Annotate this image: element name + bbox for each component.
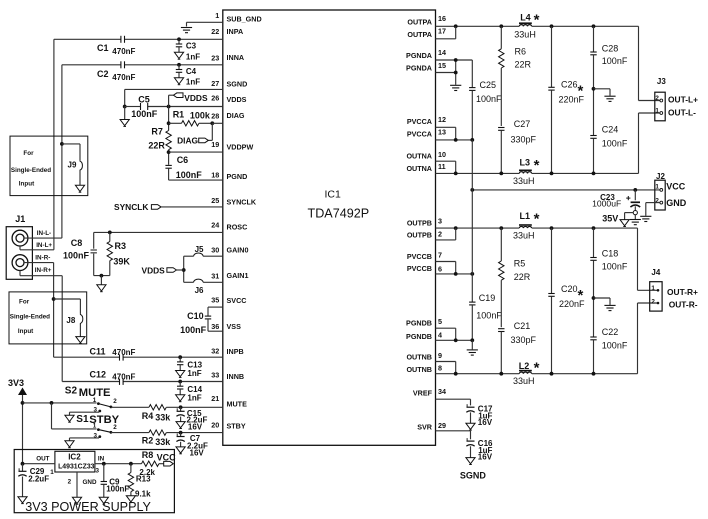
svg-text:3V3 POWER SUPPLY: 3V3 POWER SUPPLY [25, 500, 151, 514]
svg-text:24: 24 [211, 221, 219, 230]
wire INNA C2 row [62, 63, 223, 67]
capacitor C12 [90, 369, 136, 385]
svg-text:J1: J1 [15, 214, 25, 224]
ground C28 tap [594, 89, 616, 102]
pin 13 PVCCA label [407, 128, 446, 139]
svg-text:13: 13 [438, 128, 446, 137]
pin 16 OUTPA label [407, 14, 446, 27]
svg-text:C10: C10 [187, 311, 204, 321]
net label VDDS [169, 93, 208, 107]
svg-text:2: 2 [655, 198, 659, 205]
wire IN-L+ shield [20, 242, 54, 250]
svg-text:OUT-R+: OUT-R+ [667, 287, 698, 297]
capacitor C19 100nF [469, 140, 502, 340]
svg-text:L1: L1 [520, 211, 531, 221]
connector J1 [6, 214, 32, 279]
wire SVCC pin35 [208, 306, 223, 308]
svg-text:2.2k: 2.2k [139, 468, 155, 477]
svg-text:100k: 100k [190, 110, 211, 120]
inductor L2 33uH [513, 359, 540, 386]
svg-text:IN-R-: IN-R- [35, 255, 50, 262]
wire IN-L- center [24, 230, 62, 238]
svg-text:C1: C1 [97, 43, 109, 53]
svg-text:S1: S1 [76, 414, 89, 425]
net label VCC psu [157, 453, 177, 467]
svg-text:16V: 16V [188, 422, 203, 431]
pin 27 SGND label [211, 79, 247, 89]
svg-text:C20: C20 [561, 284, 578, 294]
node OUT-L+ [668, 95, 698, 105]
resistor R3 39K [107, 232, 130, 275]
svg-text:PVCCA: PVCCA [407, 117, 432, 126]
svg-text:C12: C12 [90, 369, 107, 379]
ground IC2 [72, 472, 81, 504]
wire J3 pin2 link [639, 26, 660, 100]
pin 5 PGNDB label [406, 317, 442, 328]
resistor R8 2.2k [139, 450, 163, 477]
svg-text:INNB: INNB [227, 372, 245, 381]
svg-text:1: 1 [215, 11, 219, 20]
wire C5 left leg [123, 89, 127, 119]
svg-text:Single-Ended: Single-Ended [10, 313, 50, 320]
wire OUTPB rail [436, 226, 638, 230]
pin 17 OUTPA label [407, 27, 446, 40]
ground PGNDA [450, 85, 461, 90]
wire IC2 in [95, 462, 142, 466]
svg-text:1nF: 1nF [186, 78, 200, 87]
capacitor C8 [63, 232, 97, 275]
pin 30 GAIN0 label [211, 245, 248, 254]
svg-text:Input: Input [19, 181, 35, 188]
svg-text:SUB_GND: SUB_GND [227, 14, 262, 23]
wire input-R+ vertical [53, 263, 55, 358]
svg-text:S2: S2 [65, 385, 78, 396]
inductor L3 33uH [513, 157, 540, 186]
svg-text:OUT-L-: OUT-L- [668, 108, 696, 118]
node OUT-R+ [667, 287, 698, 297]
svg-text:IC1: IC1 [325, 189, 342, 201]
svg-text:L4931CZ33: L4931CZ33 [58, 464, 95, 471]
svg-text:For: For [19, 299, 30, 306]
pin 32 INPB label [211, 346, 243, 356]
svg-text:330pF: 330pF [511, 335, 537, 345]
svg-text:C11: C11 [90, 346, 106, 356]
svg-text:100nF: 100nF [63, 251, 90, 261]
svg-text:IN-L+: IN-L+ [36, 242, 52, 249]
net label VDDS gain [142, 265, 184, 275]
svg-text:100nF: 100nF [602, 262, 628, 272]
capacitor C10 [180, 307, 223, 335]
svg-text:OUTPB: OUTPB [407, 231, 432, 240]
svg-text:33k: 33k [155, 413, 171, 423]
svg-text:R3: R3 [115, 241, 127, 251]
svg-text:C8: C8 [71, 238, 83, 248]
svg-text:7: 7 [438, 251, 442, 260]
svg-text:TDA7492P: TDA7492P [308, 207, 370, 221]
svg-text:33k: 33k [155, 437, 171, 447]
wire ROSC pin24 [94, 231, 223, 235]
svg-text:16V: 16V [190, 449, 205, 458]
node OUT-R- [669, 300, 698, 310]
svg-text:GAIN0: GAIN0 [227, 245, 249, 254]
svg-text:PGNDA: PGNDA [406, 51, 432, 60]
pin 26 VDDS label [211, 94, 246, 105]
RCA jack IN-R [12, 255, 28, 271]
svg-text:36: 36 [211, 322, 219, 331]
svg-text:R2: R2 [142, 436, 154, 446]
pin 33 INNB label [211, 371, 244, 382]
ground C23 bar [630, 215, 641, 225]
pin 12 PVCCA label [407, 115, 446, 126]
wire pin2 join [436, 228, 456, 240]
svg-text:18: 18 [211, 170, 219, 179]
connector J4 [650, 268, 662, 311]
wire INPB C11 row [54, 355, 223, 359]
capacitor C22 100nF [590, 327, 628, 374]
wire input-L+ vertical [53, 39, 55, 250]
svg-text:2: 2 [438, 229, 442, 238]
svg-text:C21: C21 [514, 321, 531, 331]
wire INPA C1 row [54, 37, 223, 41]
svg-text:31: 31 [211, 272, 219, 281]
svg-text:15: 15 [438, 61, 446, 70]
wire R7-C6 node [167, 150, 171, 165]
svg-text:VCC: VCC [157, 453, 177, 463]
inductor L1 33uH [513, 210, 540, 240]
jumper J5 [184, 245, 223, 256]
svg-text:OUTPA: OUTPA [407, 18, 432, 27]
svg-text:PGND: PGND [227, 172, 248, 181]
pin 8 OUTNB label [406, 364, 442, 375]
svg-text:For: For [23, 150, 34, 157]
svg-text:SVCC: SVCC [227, 296, 247, 305]
ground J2 [640, 203, 660, 222]
pin 31 GAIN1 label [211, 271, 248, 281]
svg-text:GND: GND [666, 198, 687, 208]
svg-text:C27: C27 [514, 119, 531, 129]
wire VDDS pin26 row [125, 105, 223, 109]
ground C5 [120, 120, 129, 127]
svg-text:3V3: 3V3 [8, 378, 24, 388]
svg-text:IN: IN [98, 456, 105, 463]
regulator IC2 L4931CZ33 [36, 451, 104, 486]
resistor R13 9.1k [126, 464, 151, 503]
wire PGNDA pins [436, 58, 473, 85]
pin 2 OUTPB label [407, 229, 442, 239]
svg-text:C5: C5 [138, 95, 150, 105]
svg-text:STBY: STBY [227, 422, 246, 431]
svg-text:MUTE: MUTE [227, 399, 248, 408]
resistor R7 22R [148, 127, 171, 151]
capacitor C15 [176, 407, 208, 431]
pin 19 VDDPW label [211, 140, 253, 152]
svg-text:J9: J9 [68, 161, 77, 170]
wire gain rail [182, 256, 186, 282]
svg-text:PGNDB: PGNDB [406, 319, 432, 328]
svg-text:VDDS: VDDS [142, 265, 166, 275]
svg-text:1nF: 1nF [187, 369, 201, 378]
svg-text:29: 29 [438, 421, 446, 430]
svg-text:16: 16 [438, 14, 446, 23]
svg-text:33uH: 33uH [514, 30, 536, 40]
svg-text:DIAG: DIAG [227, 111, 245, 120]
svg-text:IC2: IC2 [68, 453, 81, 462]
pin 20 STBY label [211, 421, 246, 431]
svg-text:C3: C3 [186, 42, 197, 51]
inductor L4 33uH [514, 11, 539, 39]
wire R3-C8 bottom [94, 274, 110, 285]
svg-text:19: 19 [211, 140, 219, 149]
svg-text:2: 2 [68, 479, 72, 486]
svg-text:470nF: 470nF [112, 73, 135, 82]
svg-text:OUTNB: OUTNB [406, 353, 432, 362]
connector J3 [655, 77, 667, 121]
wire IC2 out [21, 462, 55, 466]
wire J4 pin2 link [638, 303, 658, 374]
svg-text:R1: R1 [173, 109, 185, 119]
ground C23 arrow [620, 213, 633, 227]
svg-text:2: 2 [655, 95, 659, 102]
wire 3V3 to S2 [23, 401, 97, 405]
wire pin1 SUB_GND [187, 21, 223, 23]
wire 3V3 to S1 [52, 403, 97, 429]
wire INNB C12 row [62, 380, 223, 384]
svg-text:470nF: 470nF [112, 373, 135, 382]
wire MUTE row [111, 406, 149, 408]
svg-text:C19: C19 [479, 293, 496, 303]
svg-text:10: 10 [438, 150, 446, 159]
svg-text:1: 1 [93, 397, 97, 404]
svg-text:1: 1 [655, 184, 659, 191]
svg-text:VSS: VSS [227, 322, 242, 331]
svg-text:32: 32 [211, 346, 219, 355]
svg-text:1: 1 [655, 108, 659, 115]
capacitor C28 100nF [590, 26, 628, 135]
svg-text:9.1k: 9.1k [135, 490, 151, 499]
svg-text:C6: C6 [177, 155, 189, 165]
svg-text:*: * [534, 157, 540, 174]
pin 25 SYNCLK label [211, 196, 257, 207]
svg-text:IN-L-: IN-L- [37, 230, 51, 237]
capacitor C14 [176, 382, 203, 403]
pin 22 INPA label [211, 27, 243, 36]
capacitor C3 [174, 39, 200, 61]
svg-text:8: 8 [438, 364, 442, 373]
svg-text:3: 3 [96, 467, 100, 474]
net label SYNCLK [114, 202, 223, 212]
capacitor C9 [99, 464, 129, 504]
capacitor C27 330pF [498, 119, 536, 173]
jumper J6 [184, 279, 223, 295]
svg-text:OUT-R-: OUT-R- [669, 300, 698, 310]
svg-text:INPA: INPA [227, 27, 244, 36]
pin 9 OUTNB label [406, 351, 442, 362]
svg-text:SGND: SGND [227, 79, 248, 88]
pin 36 VSS label [211, 322, 241, 331]
node SGND [460, 471, 487, 481]
svg-text:100nF: 100nF [131, 109, 158, 119]
ground PGNDB [467, 340, 478, 355]
svg-text:1: 1 [93, 423, 97, 430]
svg-text:J6: J6 [195, 286, 204, 295]
svg-text:470nF: 470nF [112, 47, 135, 56]
svg-text:100nF: 100nF [602, 138, 628, 148]
svg-text:28: 28 [211, 111, 219, 120]
svg-text:330pF: 330pF [511, 134, 537, 144]
pin 10 OUTNA label [406, 150, 446, 161]
pin 21 MUTE label [211, 394, 247, 408]
svg-text:2: 2 [651, 298, 655, 305]
svg-text:17: 17 [438, 27, 446, 36]
svg-text:26: 26 [211, 94, 219, 103]
svg-text:OUT-L+: OUT-L+ [668, 95, 698, 105]
svg-text:OUTNA: OUTNA [406, 164, 432, 173]
svg-text:C25: C25 [480, 80, 497, 90]
RCA jack IN-L [12, 230, 28, 246]
connector J2 [655, 172, 666, 210]
svg-text:*: * [534, 11, 540, 28]
svg-text:C4: C4 [186, 67, 197, 76]
capacitor C29 [18, 464, 49, 504]
svg-text:OUTPA: OUTPA [407, 30, 432, 39]
wire input-L- vertical [61, 65, 63, 238]
svg-text:100nF: 100nF [106, 485, 129, 494]
wire SGND pin27 [125, 88, 223, 90]
wire STBY row [111, 432, 149, 434]
pin 7 PVCCB label [407, 251, 442, 262]
svg-text:R6: R6 [515, 47, 527, 57]
capacitor C13 [176, 357, 203, 378]
svg-text:33uH: 33uH [513, 230, 535, 240]
svg-text:PGNDA: PGNDA [406, 64, 432, 73]
wire SVR pin29 [436, 431, 471, 440]
ground S1 [65, 438, 99, 448]
capacitor C25 [469, 60, 502, 140]
svg-text:220nF: 220nF [559, 299, 585, 309]
pin 34 VREF label [413, 387, 446, 398]
wire OUTNA pins [436, 161, 456, 173]
svg-text:22R: 22R [515, 59, 532, 69]
svg-text:L3: L3 [520, 158, 531, 168]
svg-text:R5: R5 [514, 258, 526, 268]
svg-text:OUTNA: OUTNA [406, 152, 432, 161]
pin 14 PGNDA label [406, 48, 446, 60]
svg-text:12: 12 [438, 115, 446, 124]
pin 11 OUTNA label [406, 162, 445, 173]
pin 1 SUB_GND label [215, 11, 261, 23]
resistor R6 22R [499, 26, 532, 126]
wire PVCCB pins [436, 262, 475, 276]
capacitor C1 [97, 36, 136, 56]
jumper J9 [60, 142, 85, 192]
pin 18 PGND label [211, 170, 247, 181]
svg-text:DIAG: DIAG [177, 136, 198, 146]
capacitor C26 220nF [548, 26, 584, 173]
svg-text:VREF: VREF [413, 389, 433, 398]
svg-text:J4: J4 [651, 268, 660, 277]
wire PVCCA pins [436, 127, 475, 142]
svg-text:VDDPW: VDDPW [227, 143, 254, 152]
svg-text:6: 6 [438, 264, 442, 273]
svg-text:OUTNB: OUTNB [406, 365, 432, 374]
pin 29 SVR label [417, 421, 446, 431]
svg-text:100nF: 100nF [476, 311, 502, 321]
svg-text:1: 1 [50, 469, 54, 476]
ground S2 [65, 412, 99, 422]
wire IN-R- center [24, 255, 54, 263]
wire IN-R+ shield [20, 267, 62, 276]
svg-text:VCC: VCC [666, 182, 686, 192]
svg-text:J5: J5 [195, 245, 204, 254]
svg-text:Input: Input [18, 328, 34, 335]
svg-text:25: 25 [211, 196, 219, 205]
pin 4 PGNDB label [406, 331, 442, 342]
svg-text:OUTPB: OUTPB [407, 219, 432, 228]
capacitor C4 [174, 65, 200, 87]
svg-text:33uH: 33uH [513, 176, 535, 186]
capacitor C7 [176, 433, 208, 458]
svg-text:9: 9 [438, 351, 442, 360]
svg-text:C22: C22 [602, 327, 619, 337]
svg-text:27: 27 [211, 79, 219, 88]
svg-text:INNA: INNA [227, 53, 245, 62]
svg-text:*: * [534, 210, 540, 227]
capacitor C2 [97, 61, 136, 82]
svg-text:100nF: 100nF [602, 56, 628, 66]
resistor R5 22R [499, 228, 531, 327]
node GND J2 [666, 198, 687, 208]
resistor R4 33k [142, 405, 223, 423]
svg-text:20: 20 [211, 421, 219, 430]
resistor R1 100k [173, 109, 223, 126]
ground pin1 [181, 22, 192, 32]
svg-text:GAIN1: GAIN1 [227, 271, 249, 280]
capacitor C20 220nF [548, 228, 585, 374]
svg-text:R4: R4 [142, 411, 154, 421]
svg-text:PVCCB: PVCCB [407, 264, 432, 273]
node 3V3 [8, 378, 27, 464]
capacitor C21 330pF [498, 321, 536, 374]
svg-text:33: 33 [211, 371, 219, 380]
svg-text:C2: C2 [97, 69, 109, 79]
svg-text:R8: R8 [142, 450, 154, 460]
ground R3 [97, 285, 106, 292]
svg-text:11: 11 [438, 162, 446, 171]
svg-text:16V: 16V [478, 453, 493, 462]
svg-text:SYNCLK: SYNCLK [227, 198, 257, 207]
svg-text:PGNDB: PGNDB [406, 332, 432, 341]
svg-text:C26: C26 [561, 80, 578, 90]
pin 23 INNA label [211, 53, 244, 63]
wire OUTNA rail [436, 172, 639, 176]
capacitor C17 1uF 16V [466, 404, 493, 430]
wire input-R- vertical [61, 276, 63, 382]
capacitor C5 [131, 95, 158, 119]
svg-text:35V: 35V [602, 213, 618, 223]
svg-text:C28: C28 [602, 43, 619, 53]
svg-text:100nF: 100nF [180, 325, 207, 335]
svg-text:ROSC: ROSC [227, 222, 248, 231]
wire PGNDB pins [436, 328, 475, 342]
svg-text:100nF: 100nF [176, 170, 203, 180]
wire OUTNB rail [436, 372, 638, 376]
wire J4 pin1 link [638, 228, 658, 290]
svg-text:2: 2 [113, 424, 117, 431]
svg-text:34: 34 [438, 387, 446, 396]
wire OUTNB pins [436, 362, 456, 374]
node OUT-L- [668, 108, 696, 118]
node VCC J2 [666, 182, 686, 192]
